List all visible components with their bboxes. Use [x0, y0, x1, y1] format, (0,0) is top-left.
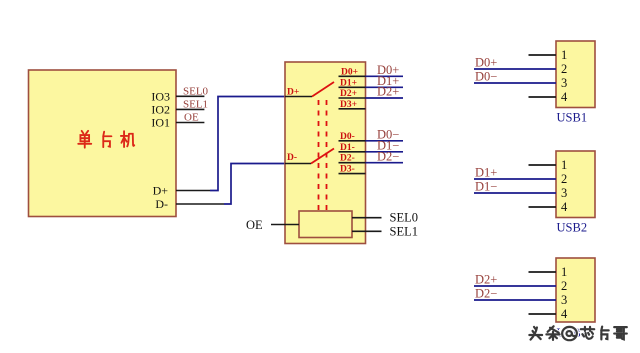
svg-text:USB1: USB1 — [557, 111, 588, 125]
svg-text:OE: OE — [246, 218, 263, 232]
svg-text:D2−: D2− — [475, 287, 497, 301]
svg-text:1: 1 — [561, 158, 567, 172]
svg-text:D1−: D1− — [475, 180, 497, 194]
svg-text:IO3: IO3 — [151, 89, 170, 103]
svg-text:D2+: D2+ — [475, 273, 497, 287]
svg-text:D0+: D0+ — [475, 56, 497, 70]
svg-text:4: 4 — [561, 307, 568, 321]
svg-text:IO2: IO2 — [151, 102, 170, 116]
svg-text:IO1: IO1 — [151, 116, 170, 130]
svg-text:1: 1 — [561, 48, 567, 62]
svg-text:SEL1: SEL1 — [183, 98, 208, 110]
svg-text:2: 2 — [561, 62, 567, 76]
svg-text:1: 1 — [561, 265, 567, 279]
svg-text:SEL1: SEL1 — [390, 224, 418, 238]
svg-text:3: 3 — [561, 186, 567, 200]
svg-text:D-: D- — [155, 197, 168, 211]
svg-text:4: 4 — [561, 200, 568, 214]
svg-text:2: 2 — [561, 279, 567, 293]
svg-text:USB2: USB2 — [557, 221, 588, 235]
svg-text:SEL0: SEL0 — [390, 211, 418, 225]
svg-text:4: 4 — [561, 90, 568, 104]
svg-text:SEL0: SEL0 — [183, 85, 209, 97]
svg-text:OE: OE — [184, 112, 199, 124]
svg-text:D2+: D2+ — [377, 85, 399, 99]
svg-text:2: 2 — [561, 172, 567, 186]
svg-text:D0−: D0− — [475, 70, 497, 84]
svg-text:3: 3 — [561, 293, 567, 307]
svg-text:D-: D- — [287, 153, 297, 163]
svg-text:3: 3 — [561, 76, 567, 90]
svg-text:D2−: D2− — [377, 149, 399, 163]
svg-text:D1+: D1+ — [475, 166, 497, 180]
svg-text:D+: D+ — [153, 184, 169, 198]
